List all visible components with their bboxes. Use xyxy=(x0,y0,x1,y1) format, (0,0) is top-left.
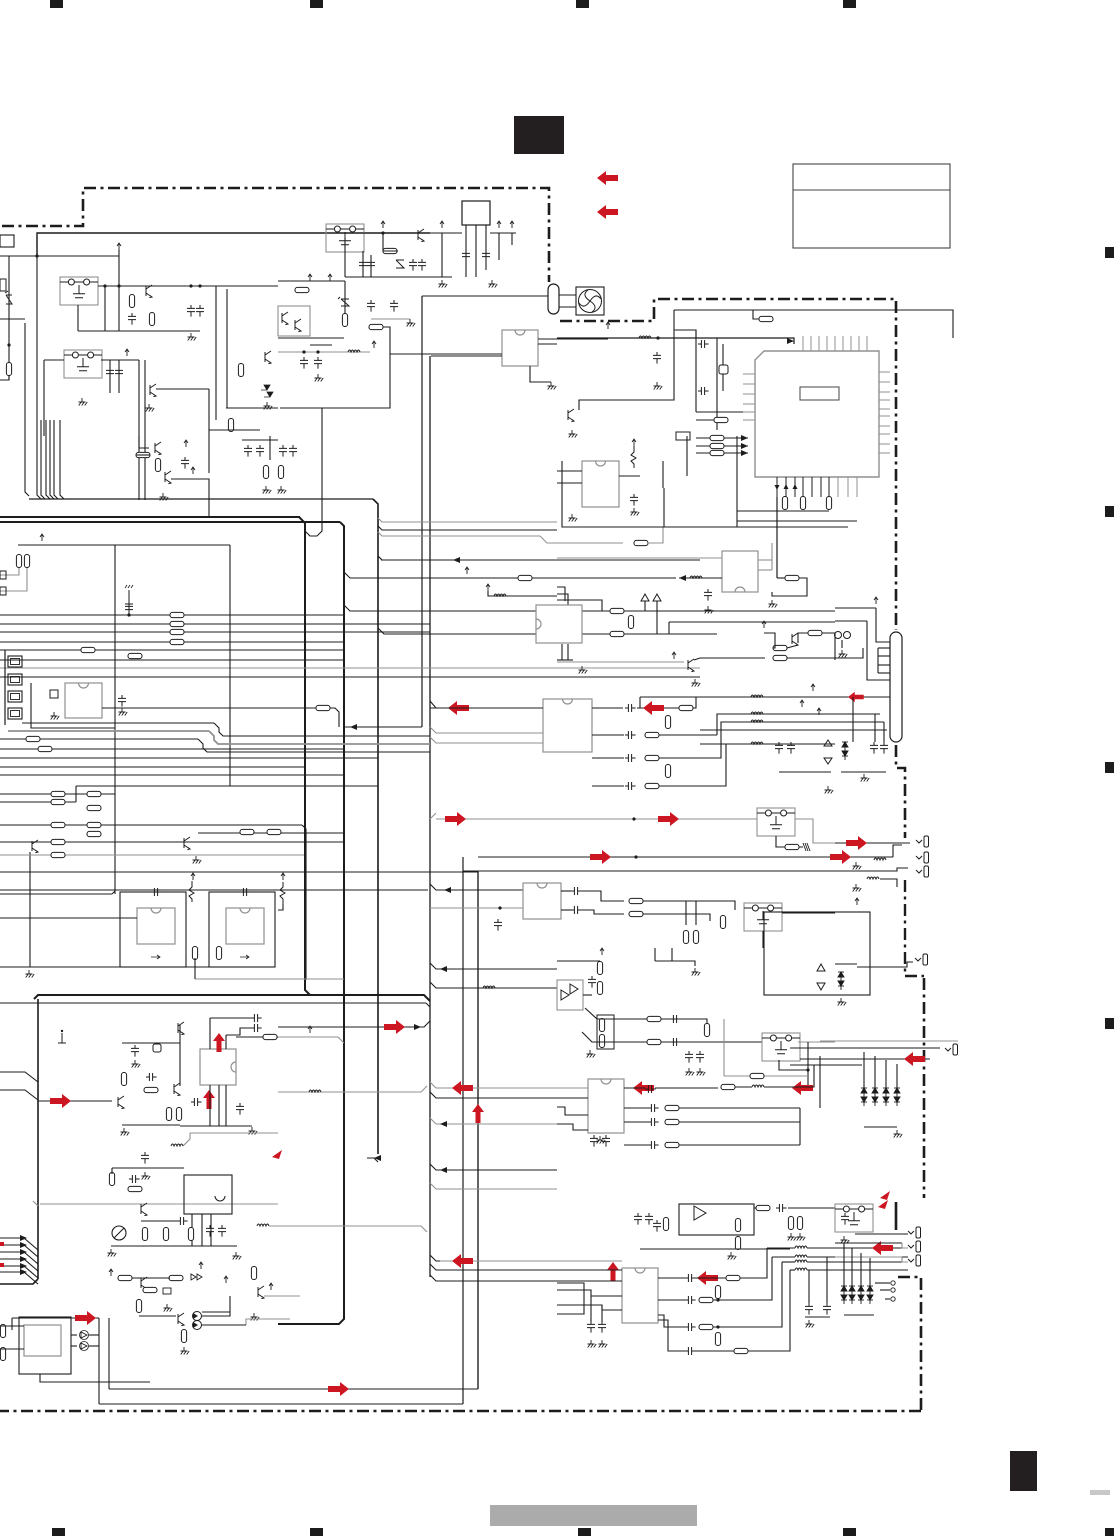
wire LL top xyxy=(122,1042,180,1044)
registration mark right 3 xyxy=(1105,762,1114,773)
registration mark right 1 xyxy=(1105,247,1114,258)
resistor W3 xyxy=(610,608,624,613)
wire UE rail xyxy=(180,1125,252,1127)
wire X7 xyxy=(883,722,885,742)
wire spk drop 3 xyxy=(860,1253,862,1286)
resistor UIi xyxy=(715,1286,720,1299)
power arrow V1 xyxy=(762,621,766,628)
resistor UCb xyxy=(597,962,602,975)
resistor E8 xyxy=(87,831,101,836)
wire O3 xyxy=(0,1325,24,1327)
wire U2 out1 xyxy=(538,338,608,340)
wire spk rail xyxy=(844,1314,874,1316)
resistor E6 xyxy=(87,822,101,827)
wire X4 xyxy=(700,729,887,731)
transistor Q12 xyxy=(118,1096,124,1109)
IC U1 bottom pin 10 xyxy=(856,477,858,497)
ground F12 xyxy=(439,280,448,288)
tap v430 h xyxy=(430,1164,557,1170)
wire gnd mid xyxy=(672,961,695,966)
component U3a xyxy=(50,690,58,698)
tap v430 e xyxy=(430,1092,557,1098)
node A1 xyxy=(103,284,106,287)
power arrow P2a xyxy=(874,597,878,604)
ground Q9 xyxy=(569,430,578,438)
wire UI in4 xyxy=(557,1290,622,1296)
wire arrow feed 3 xyxy=(696,452,748,454)
wire U6e xyxy=(686,436,688,476)
power arrow R1 xyxy=(606,322,610,329)
node sigA xyxy=(632,817,635,820)
note table box xyxy=(793,164,950,248)
power arrow F1 xyxy=(381,221,385,228)
capacitor P1c xyxy=(653,1220,661,1232)
wire input 2 xyxy=(0,1090,38,1100)
registration mark top 1 xyxy=(50,0,63,8)
resistor Z1c xyxy=(704,1024,709,1037)
capacitor X17 xyxy=(787,742,795,754)
IC U1 left pin 3 xyxy=(743,393,755,395)
wire opto mid xyxy=(310,344,332,346)
bus D6 xyxy=(0,766,304,768)
capacitor B2 xyxy=(115,367,123,379)
node sigB xyxy=(634,855,637,858)
ground Z2e xyxy=(686,1068,695,1076)
wire Q2 collector xyxy=(156,388,209,390)
power arrow F17 xyxy=(510,221,514,228)
ground PRc xyxy=(806,1320,815,1328)
registration mark bottom 4 xyxy=(843,1528,856,1536)
tap v430 f xyxy=(430,1118,557,1124)
wire gnd mid2 xyxy=(655,960,672,962)
wire out feed3 xyxy=(782,1261,795,1263)
red arrow jack1 xyxy=(846,836,867,850)
wire U3 out2 xyxy=(330,708,339,727)
wire UI in1 gray xyxy=(440,1260,622,1262)
wire P2 b2 xyxy=(867,621,890,680)
tap UI c xyxy=(430,1275,440,1281)
resistor UD4 xyxy=(665,1105,679,1110)
wire supply into IC xyxy=(777,338,794,344)
IC U1 left pin 1 xyxy=(743,373,755,375)
resistor M8 xyxy=(142,1228,147,1241)
wire UI in2 xyxy=(440,1269,622,1271)
capacitor F4 xyxy=(359,259,367,271)
capacitor UIm xyxy=(685,1347,696,1355)
resistor C3 xyxy=(228,419,233,432)
wire UB v696 xyxy=(695,901,697,925)
wire IC bottom rail 1 xyxy=(737,510,829,512)
power arrow B xyxy=(125,349,129,356)
wire v x216 xyxy=(215,286,217,420)
pin arrow down xyxy=(775,485,780,490)
wire harness drop 3 xyxy=(41,420,45,499)
bus E6 corner xyxy=(477,872,479,1389)
node A2 xyxy=(117,284,120,287)
wire term 1 xyxy=(875,1282,890,1284)
IC UF box xyxy=(184,1175,232,1214)
red flag 2 xyxy=(880,1191,890,1200)
capacitor M12 xyxy=(206,1225,214,1237)
wire N15 xyxy=(202,1311,230,1313)
resistor P1e xyxy=(735,1219,740,1232)
red arrow long 1389 xyxy=(328,1382,349,1396)
line filter FL6 xyxy=(762,1033,800,1061)
capacitor B1 xyxy=(106,367,114,379)
resistor D2 xyxy=(342,314,347,327)
ground U7e xyxy=(769,600,778,608)
jack J9 xyxy=(908,1227,921,1238)
capacitor UA4 xyxy=(625,754,636,762)
wire O10 xyxy=(89,1345,99,1347)
capacitor UBa xyxy=(494,919,502,931)
wire pwr rail xyxy=(18,544,230,546)
wire loop upper xyxy=(674,310,953,338)
capacitor Z2d xyxy=(696,1051,704,1063)
resistor C4a xyxy=(170,639,184,644)
red arrow center 2 xyxy=(452,1081,473,1095)
wire harness drop 6 xyxy=(54,420,58,499)
wire input stub 4 xyxy=(0,1259,38,1271)
capacitor U7b xyxy=(704,589,712,601)
wire left rail bottom xyxy=(0,376,9,380)
arrowhead input 2 xyxy=(20,1242,27,1248)
wire UF p1 xyxy=(191,1214,193,1246)
wire UD o4 xyxy=(624,1144,648,1146)
bus line C6 xyxy=(0,659,344,661)
wire UD o1d xyxy=(764,1065,814,1087)
diode pair spk 2 xyxy=(849,1286,855,1304)
resistor V3 xyxy=(773,655,787,660)
red arrow block D xyxy=(75,1311,96,1325)
arrowhead v422 xyxy=(350,724,357,730)
IC U1 top pin 4 xyxy=(826,336,828,351)
connector pin 1 xyxy=(8,656,22,667)
resistor UIf xyxy=(726,1275,740,1280)
ground G7 xyxy=(160,493,169,501)
wire W13 xyxy=(557,600,602,611)
transistor Q2 xyxy=(150,384,156,397)
wire X14 xyxy=(700,743,835,745)
IC U1 right pin 3 xyxy=(879,391,890,393)
resistor UD5 xyxy=(665,1119,679,1124)
wire UB r1 xyxy=(581,891,624,901)
resistor UA8 xyxy=(665,765,670,778)
power arrow T5a xyxy=(465,567,469,574)
wire diode drop 4 xyxy=(896,1064,898,1088)
resistor opto xyxy=(295,287,309,292)
capacitor LLe xyxy=(146,1073,157,1081)
resistor IC pin 1 xyxy=(782,497,787,510)
wire J4 loop xyxy=(857,962,913,967)
node supply xyxy=(35,254,38,257)
resistor Z2a xyxy=(647,1039,661,1044)
red arrow sigB xyxy=(590,850,611,864)
resistor E5 xyxy=(51,822,65,827)
capacitor S1 xyxy=(698,340,709,348)
ground N14 xyxy=(181,1347,190,1355)
wire V9 xyxy=(787,648,863,658)
wire gray link xyxy=(190,1132,278,1134)
red arrow UA xyxy=(643,701,664,715)
ground H5 xyxy=(263,486,272,494)
resistor E1 xyxy=(51,791,65,796)
node R3 xyxy=(656,336,659,339)
IC U1 bottom pin 9 xyxy=(847,477,849,497)
wire UD o1c xyxy=(735,1086,752,1088)
power arrow G5 xyxy=(191,467,195,474)
wire P1k xyxy=(788,1207,835,1209)
arrowhead input 4 xyxy=(20,1256,27,1262)
tap red right xyxy=(278,1021,430,1027)
wire S7 xyxy=(674,330,696,338)
inductor LL2 xyxy=(171,1144,183,1146)
ground U8 xyxy=(579,666,588,674)
wire F18 xyxy=(498,233,500,260)
bus line C5 xyxy=(0,649,344,651)
wire gnd v672 xyxy=(671,948,673,961)
resistor tb3 xyxy=(278,466,283,479)
wire X6 xyxy=(874,714,876,742)
resistor UIk xyxy=(699,1324,713,1329)
wire Q8 out xyxy=(198,832,344,834)
resistor UCe xyxy=(599,1035,604,1048)
wire N23 xyxy=(202,1324,246,1326)
wire PR rail xyxy=(805,1316,830,1318)
power filter FL3 xyxy=(326,224,364,252)
transistor Q16 xyxy=(141,1277,147,1290)
red arrow sigA1 xyxy=(445,812,466,826)
ground jack2 xyxy=(853,862,862,870)
wire supply top xyxy=(0,255,119,257)
wire diode rail xyxy=(864,1126,897,1128)
connector stub a xyxy=(0,571,6,579)
wire UA route3 xyxy=(717,744,737,786)
power arrow rail xyxy=(40,534,44,541)
wire H3 xyxy=(269,436,271,460)
diode pair X10 xyxy=(842,742,848,760)
ground LLi xyxy=(121,1128,130,1136)
signal wire T4 xyxy=(381,559,700,561)
transistor Q13 xyxy=(174,1083,180,1096)
wire Z1 bend xyxy=(585,1008,611,1019)
IC U1 right pin 4 xyxy=(879,399,890,401)
wire UI o1b xyxy=(695,1277,726,1279)
arrowhead E7 xyxy=(444,887,451,893)
wire to fan pill xyxy=(422,295,548,297)
resistor IC pin 3 xyxy=(826,497,831,510)
capacitor UBc xyxy=(571,906,582,914)
resistor V4 xyxy=(808,630,822,635)
wire pill to fan xyxy=(559,294,576,296)
wire small cluster xyxy=(278,904,283,910)
wire D7 xyxy=(280,327,390,408)
wire UF p3 xyxy=(210,1214,212,1246)
wire UA out1 xyxy=(592,707,623,709)
capacitor A4 xyxy=(196,305,204,317)
resistor UA6 xyxy=(645,783,659,788)
wire O12 xyxy=(11,1318,13,1330)
IC U8 xyxy=(536,605,582,643)
capacitor A2 xyxy=(128,313,136,325)
wire reg right xyxy=(490,232,516,234)
inductor out 4 xyxy=(795,1268,807,1270)
wire UD in1 gray xyxy=(557,1087,588,1089)
diode pair Y2 xyxy=(838,972,844,990)
resistor UBe xyxy=(629,911,643,916)
wire F19 xyxy=(511,233,513,245)
wire long 1404 xyxy=(99,1403,463,1405)
diode pair spk 3 xyxy=(858,1286,864,1304)
resistor FL4 xyxy=(785,844,799,849)
IC U1 label window xyxy=(800,387,839,400)
wire Y3 xyxy=(835,963,857,965)
inductor out 1 xyxy=(795,1246,807,1248)
resistor UA4 xyxy=(645,732,659,737)
power arrow 1037 xyxy=(308,1026,312,1033)
wire U7 out xyxy=(777,577,785,579)
connector pill P2 xyxy=(890,632,902,742)
capacitor S2 xyxy=(698,387,709,395)
wire bottom rail A xyxy=(78,330,200,332)
tap 1158 xyxy=(367,1158,378,1162)
wire UA route1 xyxy=(717,714,764,735)
wire R6 link xyxy=(753,310,759,319)
connector pin 2 xyxy=(8,674,22,685)
wire v109 xyxy=(108,1318,110,1389)
resistor U4 out xyxy=(192,947,197,960)
wire IC bottom rail 2 xyxy=(737,520,857,522)
registration mark bottom 3 xyxy=(578,1528,591,1536)
wire U6 in2 xyxy=(557,482,582,484)
wire X19 xyxy=(779,771,831,773)
diode pair Y1 xyxy=(817,964,825,990)
wire preamp in xyxy=(38,1100,112,1102)
arrowhead input 6 xyxy=(20,1269,27,1275)
wire U3 out xyxy=(102,707,318,709)
wire FL1 down xyxy=(104,286,106,331)
wire FL6 out gray xyxy=(798,1041,835,1043)
wire U4 in xyxy=(0,917,137,919)
wire P1j xyxy=(754,1207,756,1209)
wire UA out4 xyxy=(592,785,624,787)
jack J4 xyxy=(915,954,928,965)
wire W10 xyxy=(656,601,658,634)
wire left rail xyxy=(8,256,10,380)
wire G8 xyxy=(171,479,209,517)
IC U1 bottom pin 3 xyxy=(794,477,796,497)
wire U7 in xyxy=(679,577,722,579)
IC U1 bottom pin 1 xyxy=(776,477,778,497)
wire UI v591 xyxy=(590,1296,592,1322)
resistor D3a xyxy=(26,736,40,741)
capacitor UIe xyxy=(685,1274,696,1282)
wire N22 xyxy=(202,1296,230,1316)
tap T3 gray xyxy=(378,532,623,543)
wire harness drop 5 xyxy=(50,420,54,499)
trimmer symbol xyxy=(112,1226,126,1240)
resistor arrow feed 2 xyxy=(710,443,724,448)
wire J8 feed xyxy=(790,1064,862,1066)
resistor P1m xyxy=(797,1217,802,1230)
wire jack1 feed xyxy=(835,842,910,844)
node left rail xyxy=(7,343,10,346)
capacitor U3c xyxy=(118,695,126,707)
page number black square xyxy=(1010,1451,1037,1491)
capacitor H1 xyxy=(244,445,252,457)
capacitor PRa xyxy=(805,1303,813,1315)
wire V8 xyxy=(822,633,835,660)
ground Q2 xyxy=(146,404,155,412)
wire UE q3 xyxy=(225,1085,227,1126)
connector pin inner 3 xyxy=(11,694,20,700)
IC U6 xyxy=(582,461,619,507)
line filter FL5 xyxy=(744,903,782,931)
tap red left xyxy=(430,1082,557,1088)
wire FL5 out xyxy=(782,912,835,914)
arrowhead feed 3 xyxy=(741,450,748,456)
capacitor F5 xyxy=(367,259,375,271)
wire U7 r2 xyxy=(758,569,772,571)
resistor N3 xyxy=(143,1287,157,1292)
wire E ladder 4 xyxy=(0,841,344,843)
wire U7 r3 xyxy=(771,543,773,570)
power arrow T6a xyxy=(486,584,490,591)
red arrow v478 xyxy=(472,1104,484,1123)
resistor Q8b xyxy=(267,829,281,834)
wire v777 down xyxy=(776,497,778,578)
IC UB xyxy=(523,883,561,919)
wire W12 xyxy=(557,594,568,611)
registration mark bottom-right xyxy=(1105,1528,1114,1536)
wire UD o2b xyxy=(679,1107,800,1109)
wire U2 out2 xyxy=(538,343,557,345)
capacitor M1 xyxy=(141,1152,149,1164)
opto transistor 2 xyxy=(295,319,301,332)
wire long v2 xyxy=(144,360,146,500)
registration mark top 3 xyxy=(576,0,589,8)
red arrow J7 xyxy=(904,1052,925,1066)
red arrow UD xyxy=(633,1081,654,1095)
capacitor R4 xyxy=(653,352,661,364)
ground N9 xyxy=(164,1304,173,1312)
wire V13 xyxy=(694,658,765,660)
voltage regulator TO92 xyxy=(462,201,490,225)
wire IC bottom rail 3 xyxy=(664,526,848,528)
ground D5 xyxy=(407,319,416,327)
wire UC top xyxy=(557,960,600,962)
wire UB r4 xyxy=(643,914,710,921)
diode pair spk 1 xyxy=(841,1286,847,1304)
resistor E3 xyxy=(51,799,65,804)
arrowhead feed 1 xyxy=(741,435,748,441)
bus E8 bevel xyxy=(112,891,115,894)
resistor UEc xyxy=(263,1034,277,1039)
wire UA out1c xyxy=(640,697,696,708)
bus F thick xyxy=(34,995,430,1001)
block border dash-dot right mid xyxy=(896,745,905,838)
wire W2 xyxy=(344,605,700,611)
connector stub left top xyxy=(0,235,14,247)
wire UA out3b xyxy=(659,757,717,759)
resistor C2a xyxy=(170,621,184,626)
arrowhead input 5 xyxy=(20,1263,27,1269)
resistor U3 out xyxy=(316,705,330,710)
connector pin 3 xyxy=(8,691,22,702)
wire UI o2 xyxy=(658,1299,685,1301)
bus B2 corner xyxy=(299,517,310,995)
capacitor PRb xyxy=(823,1303,831,1315)
